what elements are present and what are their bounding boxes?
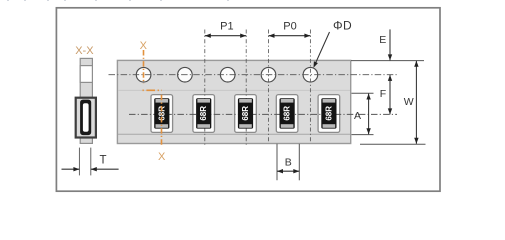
svg-text:B: B [285, 156, 292, 168]
svg-text:T: T [99, 154, 106, 166]
svg-text:68R: 68R [199, 106, 208, 121]
svg-text:68R: 68R [324, 106, 333, 121]
svg-text:P0: P0 [283, 20, 296, 32]
svg-text:68R: 68R [283, 106, 292, 121]
svg-text:P1: P1 [220, 20, 233, 32]
svg-text:X-X: X-X [75, 45, 94, 57]
svg-text:W: W [404, 96, 414, 108]
svg-text:A: A [354, 110, 361, 122]
svg-text:X: X [140, 40, 148, 52]
svg-text:E: E [379, 34, 386, 46]
svg-text:68R: 68R [241, 106, 250, 121]
svg-text:F: F [380, 88, 386, 100]
svg-text:X: X [158, 151, 166, 163]
svg-text:ΦD: ΦD [333, 19, 352, 33]
